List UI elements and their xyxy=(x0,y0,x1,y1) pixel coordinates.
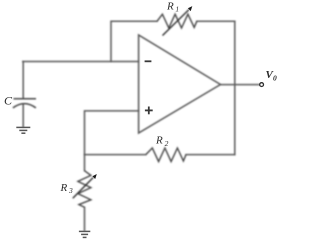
resistor R3 wiper arrowhead xyxy=(92,174,96,179)
wire non-inverting input xyxy=(85,111,139,155)
op-amp minus pin label xyxy=(145,60,152,62)
resistor R3 wiper arrow line xyxy=(73,178,93,199)
wire right feedback vertical xyxy=(234,21,236,154)
ground (below capacitor) xyxy=(16,127,30,133)
wire R2 left segment xyxy=(85,154,146,156)
op-amp plus pin label xyxy=(145,107,153,115)
svg-text:R: R xyxy=(60,182,68,194)
wire R3 bottom xyxy=(84,207,86,230)
resistor R1 wiper arrow line xyxy=(163,10,189,36)
wire R2 right segment xyxy=(186,154,235,156)
resistor R2 xyxy=(146,148,186,162)
resistor R1 (variable) xyxy=(157,14,197,28)
wire top feedback left segment xyxy=(111,21,157,61)
svg-text:R: R xyxy=(166,1,174,13)
svg-text:0: 0 xyxy=(273,74,277,83)
wire inverting input xyxy=(23,61,139,63)
ground (below R3) xyxy=(79,231,90,237)
wire capacitor top xyxy=(22,62,24,99)
op-amp U1 xyxy=(139,35,221,133)
resistor R1 wiper arrowhead xyxy=(188,6,192,11)
svg-text:R: R xyxy=(155,135,163,147)
wire output xyxy=(221,84,260,86)
wire capacitor bottom xyxy=(22,104,24,127)
svg-text:3: 3 xyxy=(68,186,73,195)
svg-text:C: C xyxy=(4,94,13,108)
resistor R3 (variable) xyxy=(78,171,91,208)
wire top feedback right segment xyxy=(197,20,235,22)
svg-text:2: 2 xyxy=(165,139,169,148)
wire R3 top xyxy=(84,155,86,171)
output terminal circle xyxy=(260,83,264,87)
svg-text:1: 1 xyxy=(175,5,179,14)
capacitor C xyxy=(13,99,36,108)
